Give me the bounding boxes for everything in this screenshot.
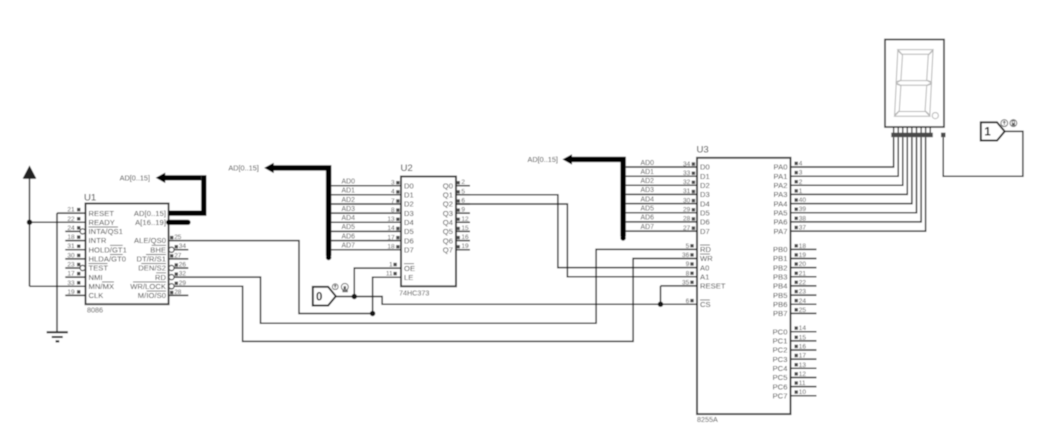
svg-text:PC2: PC2 [773,346,788,355]
svg-text:AD7: AD7 [641,224,655,231]
svg-text:WR/LOCK: WR/LOCK [130,282,166,291]
svg-text:RD: RD [700,245,712,254]
svg-text:Q4: Q4 [443,218,453,227]
svg-text:PA7: PA7 [774,227,788,236]
svg-text:D5: D5 [404,227,414,236]
svg-text:AD[0..15]: AD[0..15] [528,155,558,164]
svg-text:PA2: PA2 [774,181,788,190]
svg-text:PB6: PB6 [773,300,788,309]
svg-text:PB3: PB3 [773,273,788,282]
svg-text:CLK: CLK [89,291,104,300]
svg-text:Q2: Q2 [443,200,453,209]
svg-text:D4: D4 [700,199,710,208]
svg-text:PC3: PC3 [773,355,788,364]
svg-text:WR: WR [700,254,713,263]
svg-text:ALE/QS0: ALE/QS0 [134,236,166,245]
svg-text:LE: LE [404,273,413,282]
svg-text:INTA/QS1: INTA/QS1 [89,227,123,236]
svg-text:74HC373: 74HC373 [399,288,429,297]
svg-text:D3: D3 [700,190,710,199]
svg-text:PB5: PB5 [773,291,788,300]
svg-text:DT/R/S1: DT/R/S1 [137,255,166,264]
svg-text:HOLD/GT1: HOLD/GT1 [89,245,127,254]
svg-text:PC5: PC5 [773,373,788,382]
svg-text:Q6: Q6 [443,236,453,245]
svg-text:8086: 8086 [87,306,103,315]
svg-text:AD3: AD3 [342,206,356,213]
svg-text:Q0: Q0 [443,181,453,190]
svg-text:AD6: AD6 [342,233,356,240]
svg-text:D7: D7 [404,245,414,254]
svg-text:D2: D2 [404,200,414,209]
svg-text:AD[0..15]: AD[0..15] [134,209,166,218]
svg-text:A1: A1 [700,273,709,282]
svg-text:READY: READY [89,218,115,227]
svg-text:AD6: AD6 [641,215,655,222]
svg-text:TEST: TEST [89,264,109,273]
svg-text:A0: A0 [700,263,709,272]
svg-text:PB7: PB7 [773,309,788,318]
svg-text:AD2: AD2 [342,197,356,204]
svg-text:AD5: AD5 [641,206,655,213]
svg-text:AD5: AD5 [342,224,356,231]
svg-text:D6: D6 [404,236,414,245]
svg-text:AD3: AD3 [641,187,655,194]
svg-text:PC4: PC4 [773,364,788,373]
svg-text:PA4: PA4 [774,199,788,208]
svg-text:1: 1 [984,127,991,139]
svg-text:PC7: PC7 [773,391,788,400]
svg-text:HLDA/GT0: HLDA/GT0 [89,255,127,264]
svg-text:A[16..19]: A[16..19] [135,218,166,227]
svg-text:AD1: AD1 [641,169,655,176]
svg-text:AD7: AD7 [342,243,356,250]
svg-text:PA0: PA0 [774,163,788,172]
svg-text:RD: RD [155,273,167,282]
svg-text:Q5: Q5 [443,227,453,236]
svg-text:PC6: PC6 [773,382,788,391]
svg-text:PA5: PA5 [774,208,788,217]
svg-text:PB0: PB0 [773,245,788,254]
svg-text:OE: OE [404,264,415,273]
svg-text:D2: D2 [700,181,710,190]
svg-text:AD[0..15]: AD[0..15] [120,173,150,182]
svg-text:AD4: AD4 [342,215,356,222]
svg-text:BHE: BHE [150,245,166,254]
svg-text:AD1: AD1 [342,188,356,195]
svg-text:D0: D0 [700,163,710,172]
svg-text:PC0: PC0 [773,327,788,336]
svg-text:D4: D4 [404,218,414,227]
svg-text:D6: D6 [700,218,710,227]
svg-text:DEN/S2: DEN/S2 [138,264,166,273]
svg-text:RESET: RESET [700,282,726,291]
svg-text:U3: U3 [697,145,709,156]
svg-text:AD4: AD4 [641,196,655,203]
svg-text:NMI: NMI [89,273,103,282]
svg-text:PA1: PA1 [774,172,788,181]
svg-text:PB1: PB1 [773,254,788,263]
svg-text:AD0: AD0 [342,179,356,186]
svg-text:D0: D0 [404,181,414,190]
svg-text:U1: U1 [84,193,96,204]
svg-text:0: 0 [316,291,322,303]
svg-text:D3: D3 [404,209,414,218]
svg-text:Q7: Q7 [443,245,453,254]
svg-text:D1: D1 [404,191,414,200]
svg-text:PB4: PB4 [773,282,788,291]
svg-text:CS: CS [700,300,711,309]
svg-text:PB2: PB2 [773,263,788,272]
svg-text:AD[0..15]: AD[0..15] [228,164,258,173]
svg-text:AD0: AD0 [641,160,655,167]
svg-text:PA3: PA3 [774,190,788,199]
svg-text:Q3: Q3 [443,209,453,218]
svg-text:D5: D5 [700,208,710,217]
svg-text:PC1: PC1 [773,337,788,346]
svg-text:MN/MX: MN/MX [89,282,115,291]
svg-text:PA6: PA6 [774,218,788,227]
svg-text:RESET: RESET [89,209,115,218]
svg-text:D1: D1 [700,172,710,181]
svg-text:U2: U2 [401,163,413,174]
svg-text:M/IO/S0: M/IO/S0 [138,291,166,300]
svg-text:8255A: 8255A [697,415,718,424]
svg-text:D7: D7 [700,227,710,236]
svg-text:AD2: AD2 [641,178,655,185]
svg-text:Q1: Q1 [443,191,453,200]
svg-text:INTR: INTR [89,236,107,245]
